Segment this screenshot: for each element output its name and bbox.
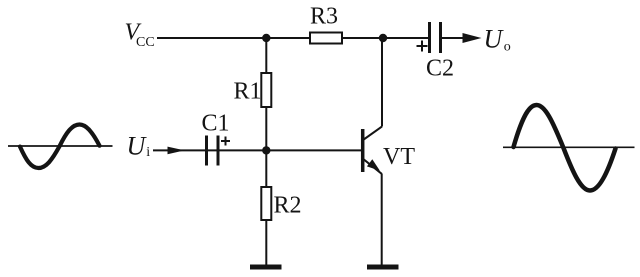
- svg-text:i: i: [146, 145, 150, 160]
- output arrow: [463, 33, 482, 43]
- node B junction dot (VCC / R3 left): [262, 34, 270, 42]
- ground (R2): [250, 265, 282, 270]
- input sine wave axis: [8, 145, 113, 147]
- svg-text:CC: CC: [136, 35, 155, 50]
- label Uo: [484, 25, 511, 55]
- resistor R3: [310, 4, 342, 44]
- svg-text:R2: R2: [274, 193, 302, 219]
- resistor R1: [234, 73, 272, 107]
- output sine wave axis: [503, 146, 635, 148]
- label VCC: [125, 20, 155, 51]
- wire R1 vertical: [265, 38, 267, 150]
- wire base node horizontal: [153, 149, 361, 151]
- svg-text:VT: VT: [383, 144, 415, 170]
- transistor Q1 VT: [363, 127, 416, 174]
- svg-text:o: o: [504, 40, 511, 55]
- svg-text:R3: R3: [310, 4, 338, 30]
- svg-text:U: U: [127, 132, 148, 161]
- ground (emitter): [367, 265, 399, 270]
- wire R2 vertical: [265, 150, 267, 265]
- capacitor C1: [202, 111, 231, 166]
- resistor R2: [261, 187, 301, 220]
- svg-text:C2: C2: [426, 56, 454, 82]
- node C junction dot (collector / R3 right): [379, 34, 387, 42]
- capacitor C2: [417, 22, 455, 82]
- wire emitter vertical: [381, 174, 383, 266]
- svg-text:R1: R1: [234, 79, 262, 105]
- input arrow: [168, 147, 185, 155]
- svg-text:C1: C1: [202, 111, 230, 137]
- wire VCC rail: [157, 37, 428, 39]
- wire C2 to arrow: [442, 37, 466, 39]
- output sine wave: [514, 105, 616, 191]
- svg-text:U: U: [484, 25, 505, 54]
- node A junction dot (base node): [262, 146, 270, 154]
- input sine wave: [20, 125, 100, 169]
- wire collector vertical: [381, 38, 383, 127]
- label Ui: [127, 132, 151, 161]
